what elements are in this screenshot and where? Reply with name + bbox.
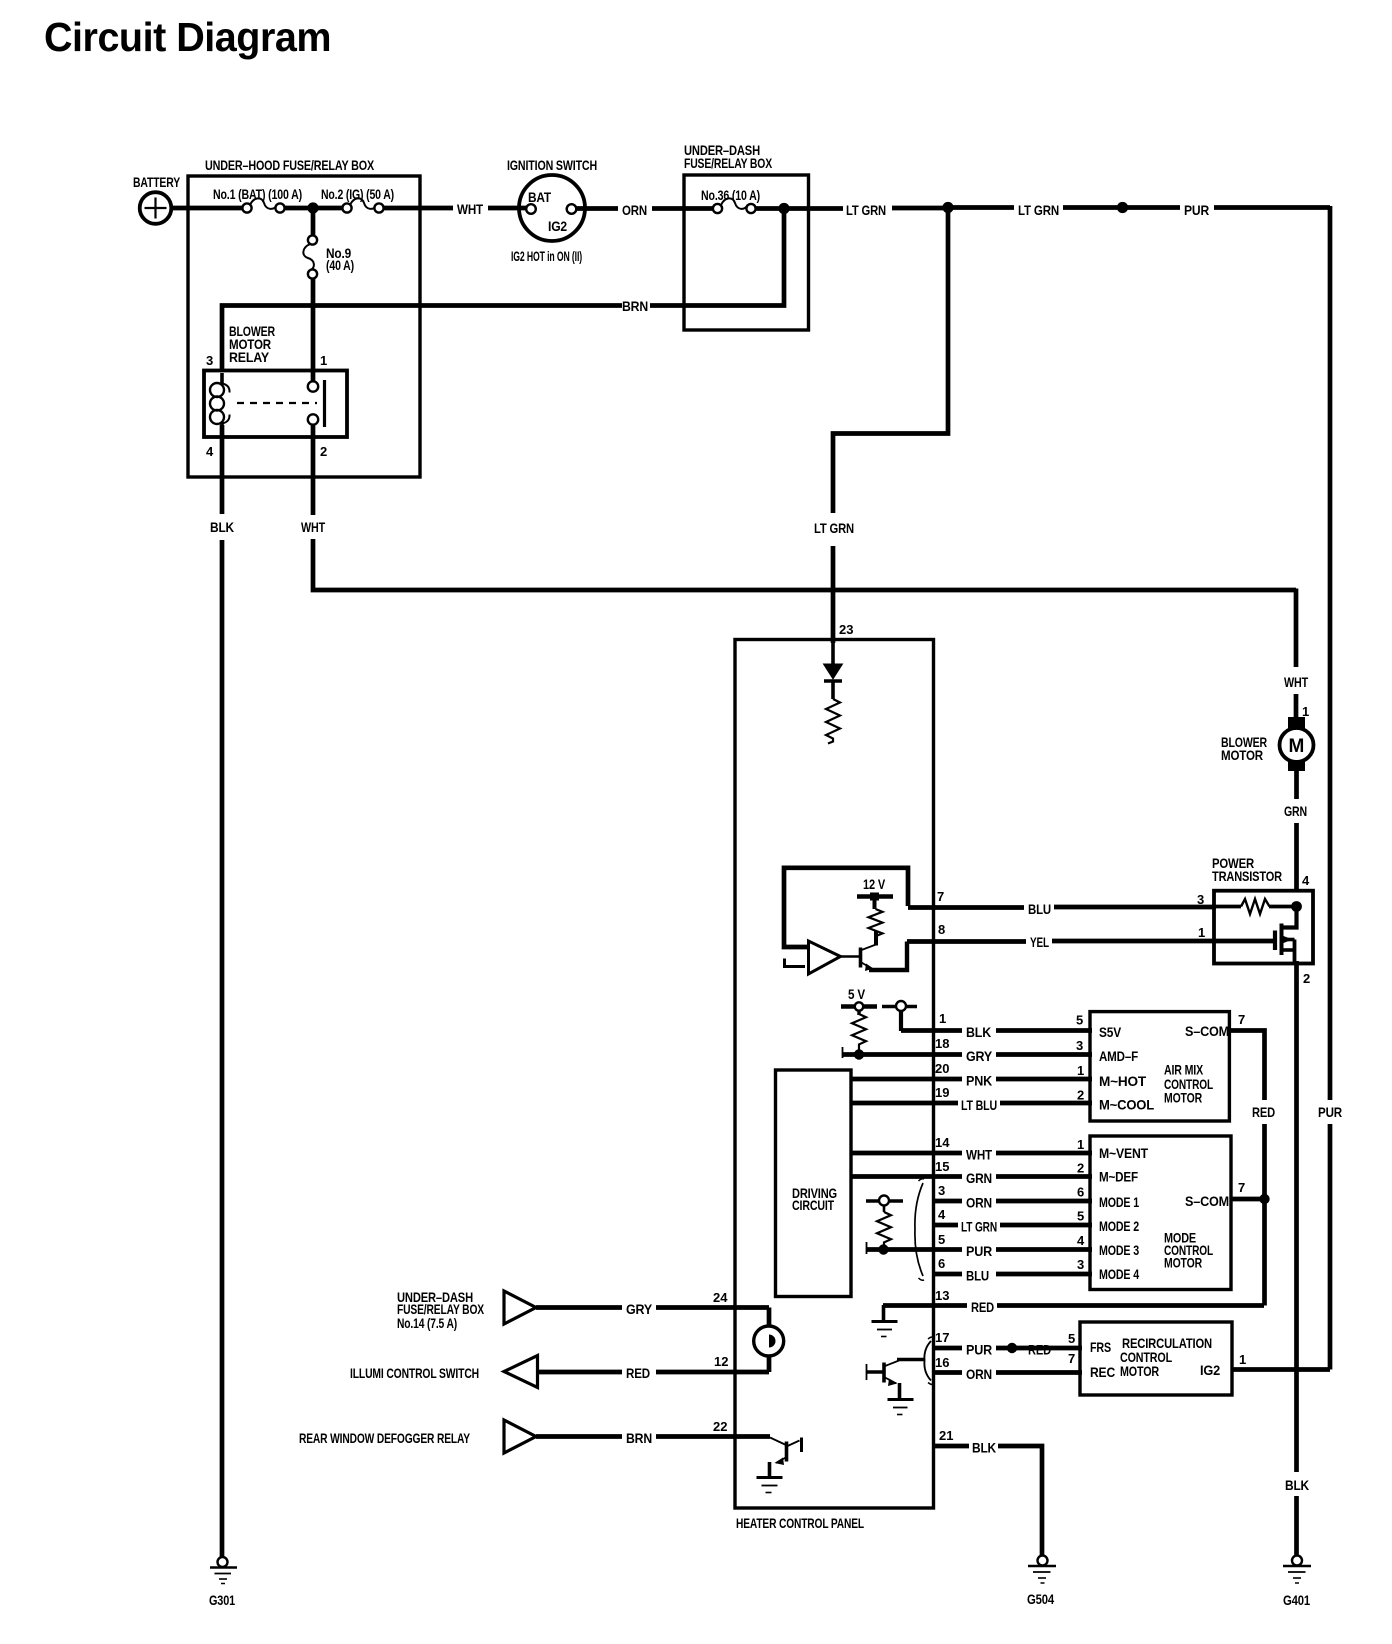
under-hood fuse/relay box (188, 157, 420, 477)
wire BRN: under-dash to relay pin3 (222, 306, 622, 372)
svg-text:1: 1 (1077, 1063, 1084, 1078)
svg-text:FUSE/RELAY BOX: FUSE/RELAY BOX (684, 155, 773, 171)
wire battery to fuse No.1 (172, 206, 243, 211)
svg-text:FRS: FRS (1090, 1339, 1111, 1355)
svg-text:BLU: BLU (1028, 901, 1051, 917)
svg-text:UNDER–HOOD FUSE/RELAY BOX: UNDER–HOOD FUSE/RELAY BOX (205, 157, 375, 173)
ground inside panel at pin 13 (872, 1305, 898, 1337)
resistor R2 (12V to Q1 collector) (869, 909, 883, 936)
svg-text:LT BLU: LT BLU (961, 1097, 997, 1113)
svg-text:23: 23 (839, 622, 853, 637)
svg-text:AMD–F: AMD–F (1099, 1048, 1139, 1064)
blower motor relay (204, 323, 347, 459)
ignition switch (507, 157, 597, 264)
node: bus junction at x=313 (307, 202, 318, 213)
wire relay pin2 WHT down then right (313, 424, 1296, 590)
svg-text:22: 22 (713, 1419, 727, 1434)
wire fuse1 to junction (285, 206, 344, 211)
svg-text:1: 1 (1198, 925, 1205, 940)
illumination lamp (754, 1308, 784, 1373)
svg-text:3: 3 (206, 353, 213, 368)
wire air mix S-COM pin 7 to RED vertical (1229, 1031, 1265, 1306)
svg-text:5: 5 (1076, 1013, 1083, 1028)
ground G301 (209, 1557, 237, 1608)
svg-text:LT GRN: LT GRN (814, 520, 854, 536)
svg-text:BRN: BRN (622, 298, 648, 314)
svg-text:BLK: BLK (966, 1024, 991, 1040)
svg-text:No.2 (IG) (50 A): No.2 (IG) (50 A) (321, 186, 394, 202)
svg-text:MODE 4: MODE 4 (1099, 1266, 1139, 1282)
fuse No.9 (40 A) vertical (303, 213, 354, 382)
svg-text:BAT: BAT (528, 189, 552, 205)
heater control panel box (735, 640, 934, 1532)
svg-text:G401: G401 (1283, 1592, 1310, 1608)
ground at Q3 emitter (757, 1478, 783, 1493)
node: drain junction (1291, 901, 1302, 912)
svg-text:G301: G301 (209, 1592, 235, 1608)
wire relay pin4 BLK down to G301 (220, 425, 225, 1557)
svg-text:12 V: 12 V (863, 876, 886, 892)
wire WHT pin 14 to mode M-VENT (851, 1151, 1092, 1156)
svg-text:21: 21 (939, 1428, 953, 1443)
svg-text:24: 24 (713, 1290, 728, 1305)
svg-text:M: M (1289, 736, 1305, 757)
mode selector arc (915, 1183, 923, 1276)
svg-text:YEL: YEL (1030, 934, 1049, 950)
svg-text:20: 20 (935, 1061, 949, 1076)
wire BRN drop inside under-dash box (650, 209, 784, 306)
svg-text:RED: RED (626, 1365, 650, 1381)
wire ORN pin 16 to recirc REC (933, 1370, 1082, 1375)
wire pin 2 power transistor down to G401 (1294, 961, 1299, 1556)
svg-text:BLK: BLK (972, 1440, 996, 1456)
svg-text:1: 1 (1077, 1137, 1084, 1152)
svg-text:IG2: IG2 (1200, 1362, 1220, 1378)
svg-text:IG2: IG2 (548, 218, 567, 234)
svg-text:PUR: PUR (966, 1342, 992, 1358)
relay switch contacts (308, 380, 325, 427)
svg-text:15: 15 (935, 1159, 949, 1174)
ground G504 (1027, 1556, 1056, 1608)
svg-text:2: 2 (1077, 1088, 1084, 1103)
svg-text:7: 7 (1238, 1180, 1245, 1195)
bracket arc at pins 17/16 (924, 1341, 931, 1381)
svg-text:WHT: WHT (966, 1147, 993, 1163)
svg-text:1: 1 (320, 353, 327, 368)
svg-text:14: 14 (935, 1135, 950, 1150)
svg-text:M~COOL: M~COOL (1099, 1097, 1155, 1113)
svg-text:5: 5 (1068, 1331, 1075, 1346)
transistor Q1 (861, 931, 908, 971)
svg-text:LT GRN: LT GRN (961, 1219, 997, 1235)
wire YEL pin 8 to power transistor pin 1 (907, 939, 1275, 944)
connector arrow to illumi control switch (350, 1356, 538, 1388)
svg-text:M~VENT: M~VENT (1099, 1145, 1149, 1161)
op-amp U1 triangle (809, 941, 841, 974)
svg-text:7: 7 (1068, 1351, 1075, 1366)
svg-text:RED: RED (971, 1299, 994, 1315)
svg-text:MOTOR: MOTOR (1164, 1255, 1202, 1271)
svg-text:5: 5 (1077, 1209, 1084, 1224)
node: junction on PUR wire (878, 1244, 888, 1254)
svg-text:PNK: PNK (966, 1073, 992, 1089)
recirculation control motor box (1080, 1322, 1232, 1395)
wire PUR pin 5 to mode MODE3 (866, 1242, 868, 1254)
svg-text:BLU: BLU (966, 1268, 989, 1284)
svg-text:GRN: GRN (1284, 803, 1307, 819)
wire mode S-COM pin 7 (1231, 1197, 1264, 1202)
svg-text:BRN: BRN (626, 1430, 652, 1446)
svg-text:IGNITION SWITCH: IGNITION SWITCH (507, 157, 597, 173)
wire RED pin 13 (S-COM common) (883, 1303, 1264, 1308)
12V supply symbol (857, 876, 893, 909)
connector symbol at pin 1 (882, 1001, 917, 1031)
svg-text:M~DEF: M~DEF (1099, 1169, 1139, 1185)
svg-text:ILLUMI CONTROL SWITCH: ILLUMI CONTROL SWITCH (350, 1365, 479, 1381)
svg-text:LT GRN: LT GRN (846, 202, 886, 218)
wire WHT right side down to blower motor (1294, 589, 1299, 720)
svg-text:8: 8 (938, 922, 945, 937)
amplifier sub-circuit frame (784, 868, 908, 947)
under-dash fuse/relay box (684, 142, 809, 330)
svg-text:ORN: ORN (622, 202, 647, 218)
wire LT GRN to second splice (953, 205, 1119, 210)
svg-text:MODE 3: MODE 3 (1099, 1242, 1139, 1258)
wire LT GRN after under-dash box (789, 206, 944, 211)
wire WHT: fuse2 to ignition switch (384, 206, 528, 211)
wire BLU pin 7 to power transistor pin 3 (908, 905, 1216, 910)
svg-text:3: 3 (1077, 1257, 1084, 1272)
svg-text:4: 4 (206, 444, 214, 459)
svg-text:6: 6 (1077, 1185, 1084, 1200)
relay coil (210, 373, 230, 434)
fuse No.2 (IG) (50 A) (321, 186, 394, 213)
svg-text:PUR: PUR (1184, 202, 1209, 218)
wire LT GRN pin 4 to mode MODE2 (933, 1223, 1092, 1228)
svg-text:5: 5 (938, 1232, 945, 1247)
resistor R5 in power transistor (1216, 905, 1241, 909)
svg-text:1: 1 (1239, 1352, 1246, 1367)
svg-text:4: 4 (1302, 873, 1310, 888)
svg-text:2: 2 (1303, 971, 1310, 986)
svg-text:REC: REC (1090, 1364, 1115, 1380)
wire GRY pin 18 to air mix AMD-F (842, 1047, 844, 1058)
svg-text:2: 2 (1077, 1161, 1084, 1176)
svg-text:Circuit Diagram: Circuit Diagram (44, 14, 331, 60)
svg-text:LT GRN: LT GRN (1018, 202, 1059, 218)
svg-text:IG2 HOT in ON (II): IG2 HOT in ON (II) (511, 248, 582, 264)
wire PUR to right corner (1127, 205, 1330, 210)
svg-text:REAR WINDOW DEFOGGER RELAY: REAR WINDOW DEFOGGER RELAY (299, 1430, 471, 1446)
svg-text:2: 2 (320, 444, 327, 459)
node: S-COM junction (1259, 1194, 1269, 1204)
svg-text:7: 7 (1238, 1012, 1245, 1027)
power transistor box (1212, 855, 1313, 964)
svg-text:1: 1 (939, 1011, 946, 1026)
svg-text:PUR: PUR (966, 1243, 992, 1259)
svg-text:BLK: BLK (210, 519, 234, 535)
svg-text:MOTOR: MOTOR (1120, 1363, 1159, 1379)
svg-text:MODE 2: MODE 2 (1099, 1218, 1139, 1234)
5V supply symbol (841, 986, 877, 1015)
blower motor M (1221, 717, 1314, 771)
wire PUR/RED pin 17 to recirc FRS (933, 1346, 1082, 1351)
wire BRN pin 22 into panel (536, 1434, 770, 1439)
wire GRN blower to power transistor pin 4 (1294, 771, 1299, 892)
air mix control motor box (1090, 1012, 1229, 1121)
ground G401 (1283, 1556, 1311, 1609)
connector arrow from rear window defogger relay (299, 1420, 536, 1453)
svg-text:GRY: GRY (966, 1048, 993, 1064)
relay contact dashed link (237, 402, 317, 404)
svg-text:CIRCUIT: CIRCUIT (792, 1197, 834, 1213)
node: junction after fuse 36 (778, 203, 789, 214)
wire PUR right vertical (1328, 206, 1333, 1370)
svg-text:No.14 (7.5 A): No.14 (7.5 A) (397, 1315, 457, 1331)
svg-text:19: 19 (935, 1085, 949, 1100)
resistor R1 below diode (826, 699, 840, 744)
svg-text:5 V: 5 V (848, 986, 866, 1002)
fuse No.1 (BAT) (100 A) (213, 186, 302, 213)
svg-text:M~HOT: M~HOT (1099, 1073, 1147, 1089)
wire GRY pin 24 into panel (536, 1305, 769, 1310)
svg-text:WHT: WHT (1284, 674, 1308, 690)
svg-text:MODE 1: MODE 1 (1099, 1194, 1139, 1210)
wire RED pin 12 to illumi control switch (538, 1370, 769, 1375)
svg-text:RELAY: RELAY (229, 349, 270, 365)
svg-text:BLK: BLK (1285, 1477, 1309, 1493)
node: junction on GRY wire (854, 1049, 864, 1059)
MOSFET Q4 (1275, 906, 1297, 963)
svg-text:3: 3 (1076, 1038, 1083, 1053)
wire BLU pin 6 to mode MODE4 (933, 1272, 1092, 1277)
node: splice dot LT GRN / PUR (1117, 202, 1128, 213)
svg-text:S5V: S5V (1099, 1024, 1122, 1040)
wire BLK pin 21 to G504 (933, 1446, 1042, 1557)
svg-text:G504: G504 (1027, 1591, 1054, 1607)
svg-text:WHT: WHT (301, 519, 325, 535)
mode control motor box (1090, 1136, 1231, 1290)
svg-text:12: 12 (714, 1354, 728, 1369)
svg-text:ORN: ORN (966, 1366, 992, 1382)
battery B1 (133, 174, 181, 224)
svg-text:WHT: WHT (457, 201, 484, 217)
wire BLK pin 1 to air mix S5V (901, 1028, 1092, 1033)
wire LT GRN branch down from junction (833, 212, 948, 643)
svg-text:S–COM: S–COM (1185, 1193, 1229, 1209)
svg-text:MOTOR: MOTOR (1221, 747, 1263, 763)
wire ORN pin 3 to mode MODE1 (933, 1199, 1092, 1204)
svg-text:(40 A): (40 A) (326, 257, 354, 273)
svg-text:No.1 (BAT) (100 A): No.1 (BAT) (100 A) (213, 186, 302, 202)
driving circuit block (776, 1070, 852, 1297)
ground at Q2 emitter (888, 1400, 914, 1415)
transistor Q3 (defogger signal) (770, 1438, 802, 1478)
diode D1 at pin 23 (824, 643, 843, 699)
fuse No.36 (10 A) (701, 187, 760, 213)
wire ORN: ignition to under-dash box (576, 206, 714, 211)
svg-text:S–COM: S–COM (1185, 1023, 1229, 1039)
wire PNK pin 20 to air mix M-HOT (851, 1077, 1092, 1082)
svg-text:PUR: PUR (1318, 1104, 1342, 1120)
svg-text:No.36 (10 A): No.36 (10 A) (701, 187, 760, 203)
svg-text:ORN: ORN (966, 1195, 992, 1211)
svg-text:BATTERY: BATTERY (133, 174, 181, 190)
wire recirc IG2 pin 1 to PUR vertical (1232, 1367, 1330, 1372)
svg-text:3: 3 (1197, 892, 1204, 907)
svg-text:TRANSISTOR: TRANSISTOR (1212, 868, 1282, 884)
connector arrow from under-dash fuse box No.14 (397, 1289, 536, 1331)
svg-text:16: 16 (935, 1355, 949, 1370)
wire LT BLU pin 19 to air mix M-COOL (851, 1101, 1092, 1106)
svg-text:GRY: GRY (626, 1301, 653, 1317)
svg-text:MOTOR: MOTOR (1164, 1090, 1202, 1106)
svg-text:HEATER CONTROL PANEL: HEATER CONTROL PANEL (736, 1515, 864, 1531)
input stub (784, 959, 805, 969)
node: LT GRN junction (942, 202, 953, 213)
transistor Q2 (recirc driver) (866, 1360, 925, 1399)
svg-text:17: 17 (935, 1330, 949, 1345)
svg-text:3: 3 (938, 1183, 945, 1198)
svg-text:4: 4 (938, 1207, 946, 1222)
svg-text:4: 4 (1077, 1233, 1085, 1248)
svg-text:7: 7 (937, 889, 944, 904)
svg-text:13: 13 (935, 1288, 949, 1303)
connector circle + resistor R4 on PUR wire (866, 1196, 903, 1249)
svg-text:1: 1 (1302, 704, 1309, 719)
resistor R3 (5V to GRY) (852, 1014, 866, 1050)
wire GRN pin 15 to mode M-DEF (851, 1174, 1092, 1179)
svg-text:RED: RED (1028, 1342, 1051, 1358)
svg-text:18: 18 (935, 1036, 949, 1051)
svg-text:6: 6 (938, 1256, 945, 1271)
svg-text:RED: RED (1252, 1104, 1275, 1120)
svg-text:GRN: GRN (966, 1170, 992, 1186)
